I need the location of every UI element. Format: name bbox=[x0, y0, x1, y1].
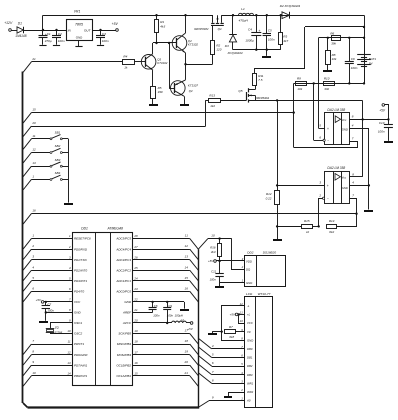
svg-text:10: 10 bbox=[67, 329, 71, 333]
svg-text:OUT: OUT bbox=[84, 28, 92, 32]
wire op2 pin8 supply bbox=[350, 172, 363, 176]
svg-text:A0: A0 bbox=[246, 399, 251, 403]
svg-text:WR1: WR1 bbox=[247, 381, 254, 385]
svg-text:ADC5/PC5: ADC5/PC5 bbox=[115, 237, 131, 241]
svg-text:10: 10 bbox=[240, 319, 244, 323]
resistor R14 6k2 bbox=[327, 219, 337, 234]
resistor R3 4k7 bbox=[279, 15, 289, 50]
ground at LCD contrast bbox=[208, 332, 222, 336]
wire battery top feed bbox=[255, 27, 364, 69]
svg-text:+5V: +5V bbox=[379, 109, 386, 113]
svg-text:PD6/AIN0: PD6/AIN0 bbox=[74, 353, 88, 357]
transistor Q4 KT3107 bbox=[169, 43, 198, 104]
svg-text:C8: C8 bbox=[154, 304, 158, 308]
svg-text:100µH: 100µH bbox=[175, 313, 184, 317]
wire net 15 row bbox=[23, 108, 294, 124]
svg-text:100n: 100n bbox=[210, 278, 217, 282]
wire net20 riser to R13 bbox=[205, 100, 207, 126]
svg-text:28: 28 bbox=[133, 234, 138, 238]
svg-text:WT10-77: WT10-77 bbox=[258, 292, 271, 296]
svg-text:R13: R13 bbox=[209, 93, 215, 97]
MCU left net stubs bbox=[23, 234, 72, 387]
wire op1 pin5 input bbox=[319, 38, 325, 129]
ground below R5 bbox=[149, 104, 158, 106]
svg-text:DA2 LM 358: DA2 LM 358 bbox=[327, 166, 345, 170]
svg-text:4k7: 4k7 bbox=[283, 39, 288, 43]
wire VR1 out to +5V bbox=[92, 29, 116, 31]
resistor R6 39k bbox=[330, 31, 340, 45]
ground below VR1 bbox=[75, 40, 82, 47]
svg-text:32768: 32768 bbox=[54, 331, 62, 335]
svg-text:V0: V0 bbox=[247, 330, 251, 334]
svg-text:12: 12 bbox=[67, 350, 71, 354]
svg-text:18: 18 bbox=[134, 340, 138, 344]
svg-text:Q1: Q1 bbox=[218, 27, 222, 31]
ground below C1 bbox=[39, 38, 46, 46]
svg-text:KT3102: KT3102 bbox=[188, 43, 199, 47]
svg-text:ADC2/PC2: ADC2/PC2 bbox=[115, 268, 131, 272]
wire op1 pin8 V+ row bbox=[349, 115, 389, 121]
svg-text:+: + bbox=[258, 29, 260, 33]
svg-text:SB1: SB1 bbox=[55, 130, 61, 134]
svg-text:6k8: 6k8 bbox=[229, 335, 234, 339]
node +5V output terminal bbox=[112, 22, 119, 31]
svg-text:R12: R12 bbox=[266, 192, 272, 196]
bus left vertical bbox=[23, 72, 28, 408]
svg-text:C6: C6 bbox=[351, 57, 355, 61]
wire net 8 row to LCD WR1 bbox=[198, 373, 244, 384]
wire net 4 row to LCD DB0 bbox=[198, 338, 244, 349]
node +5V LCD terminal bbox=[230, 313, 245, 324]
capacitor C11 100n bbox=[210, 261, 224, 286]
svg-text:4k3: 4k3 bbox=[160, 25, 165, 29]
resistor R1 4k3 bbox=[155, 15, 166, 43]
svg-text:OSC1: OSC1 bbox=[74, 321, 83, 325]
ground below R12 bbox=[273, 239, 282, 241]
wire op1 pin4 to ground bbox=[349, 124, 370, 210]
svg-text:25: 25 bbox=[133, 266, 138, 270]
svg-text:DB0: DB0 bbox=[247, 347, 253, 351]
resistor R10 39k bbox=[324, 77, 335, 91]
svg-text:OC1A/PB1: OC1A/PB1 bbox=[116, 374, 131, 378]
svg-text:ADC1/PC1: ADC1/PC1 bbox=[115, 279, 131, 283]
wire DS18B20 GND row bbox=[220, 282, 245, 284]
svg-text:PD5/T1: PD5/T1 bbox=[74, 342, 85, 346]
svg-text:IRF9530N: IRF9530N bbox=[194, 27, 209, 31]
resistor R15 1k bbox=[277, 219, 320, 234]
svg-text:DB3: DB3 bbox=[247, 373, 253, 377]
svg-text:100n: 100n bbox=[58, 39, 65, 43]
resistor R11 7.5 bbox=[253, 68, 264, 86]
svg-text:2: 2 bbox=[31, 244, 34, 248]
svg-text:C5: C5 bbox=[268, 29, 272, 33]
svg-text:PD2/INT0: PD2/INT0 bbox=[74, 268, 88, 272]
svg-text:R14: R14 bbox=[329, 219, 335, 223]
svg-text:R16: R16 bbox=[210, 246, 216, 250]
svg-text:KT3107: KT3107 bbox=[188, 84, 199, 88]
svg-text:2: 2 bbox=[240, 388, 243, 392]
ground below switches bbox=[64, 203, 73, 205]
svg-text:MOSI/PB3: MOSI/PB3 bbox=[117, 353, 132, 357]
svg-text:100n: 100n bbox=[153, 313, 160, 317]
svg-text:DA2 LM 358: DA2 LM 358 bbox=[327, 108, 345, 112]
resistor R16 4k3 bbox=[210, 239, 221, 261]
ground below C5 row bbox=[262, 50, 271, 58]
svg-text:ADC0/PC0: ADC0/PC0 bbox=[115, 289, 131, 293]
svg-text:+L: +L bbox=[247, 313, 251, 317]
svg-text:13: 13 bbox=[32, 161, 36, 165]
svg-text:VCC: VCC bbox=[247, 321, 254, 325]
resistor R4 1k bbox=[123, 55, 135, 70]
svg-text:LCD: LCD bbox=[246, 292, 253, 296]
ground below C10 bbox=[384, 141, 393, 143]
svg-text:13: 13 bbox=[67, 361, 71, 365]
svg-text:VDD: VDD bbox=[246, 259, 252, 263]
svg-text:R9: R9 bbox=[297, 77, 301, 81]
svg-text:10k: 10k bbox=[332, 57, 337, 61]
svg-text:ADC4/PC4: ADC4/PC4 bbox=[115, 247, 131, 251]
ground below C2 bbox=[53, 38, 60, 46]
svg-text:D2 FCQ30A04: D2 FCQ30A04 bbox=[280, 4, 301, 8]
switch SB1 bbox=[23, 130, 68, 149]
svg-text:C3: C3 bbox=[102, 32, 106, 36]
resistor R12 0.22 shunt bbox=[266, 100, 280, 239]
svg-text:DD1: DD1 bbox=[81, 227, 88, 231]
svg-text:FCQ30A04: FCQ30A04 bbox=[228, 51, 243, 55]
wire op-amp V+ vertical bbox=[362, 119, 364, 176]
svg-text:SB4: SB4 bbox=[55, 171, 61, 175]
svg-text:16: 16 bbox=[134, 361, 138, 365]
svg-text:BAT1: BAT1 bbox=[369, 57, 377, 61]
svg-text:15: 15 bbox=[185, 276, 189, 280]
svg-text:16: 16 bbox=[185, 286, 189, 290]
svg-text:+: + bbox=[327, 127, 329, 131]
wire op2 pin4 ground row bbox=[350, 181, 369, 186]
svg-text:330: 330 bbox=[158, 90, 163, 94]
transistor Q2 KT3102 bbox=[172, 15, 198, 64]
svg-text:R4: R4 bbox=[123, 55, 127, 59]
svg-text:21: 21 bbox=[31, 57, 36, 61]
svg-text:100n: 100n bbox=[268, 38, 275, 42]
svg-text:10: 10 bbox=[211, 234, 215, 238]
svg-text:PD0/RXD: PD0/RXD bbox=[74, 247, 88, 251]
svg-text:470µ: 470µ bbox=[45, 39, 52, 43]
svg-text:D3: D3 bbox=[225, 44, 229, 48]
svg-text:100n: 100n bbox=[167, 313, 174, 317]
MCU pin names and numbers bbox=[67, 234, 138, 378]
svg-text:21: 21 bbox=[133, 308, 138, 312]
svg-text:Vcc: Vcc bbox=[342, 118, 347, 122]
wire net 21 row to R4 bbox=[23, 57, 123, 73]
svg-text:ADC3/PC3: ADC3/PC3 bbox=[115, 258, 131, 262]
svg-text:+12V: +12V bbox=[4, 21, 13, 25]
capacitor C6 100n bbox=[345, 38, 358, 84]
wire op2 pin2 input bbox=[318, 193, 324, 226]
svg-text:12: 12 bbox=[32, 148, 36, 152]
svg-text:14: 14 bbox=[185, 265, 189, 269]
svg-text:C4: C4 bbox=[248, 27, 252, 31]
svg-text:12: 12 bbox=[185, 244, 189, 248]
wire net 9 row to LCD A0 bbox=[198, 396, 244, 408]
wire driver base row bbox=[153, 42, 177, 44]
svg-text:2: 2 bbox=[318, 193, 321, 197]
svg-text:R1: R1 bbox=[160, 20, 164, 24]
wire AREF row bbox=[133, 312, 153, 314]
svg-text:RESET/PC6: RESET/PC6 bbox=[74, 237, 91, 241]
svg-text:DD2: DD2 bbox=[247, 251, 253, 255]
svg-text:0.22: 0.22 bbox=[266, 197, 272, 201]
svg-text:Q4: Q4 bbox=[189, 89, 193, 93]
svg-text:120: 120 bbox=[216, 47, 221, 51]
wire op1 pin7 output loop bbox=[294, 137, 358, 148]
wire op2 pin7 output loop bbox=[337, 193, 358, 226]
svg-text:27: 27 bbox=[133, 245, 138, 249]
svg-text:PD7/AIN1: PD7/AIN1 bbox=[74, 363, 88, 367]
svg-text:2: 2 bbox=[241, 265, 244, 269]
svg-text:39k: 39k bbox=[331, 42, 336, 46]
op-amp DA2 LM358 first half bbox=[325, 108, 350, 144]
svg-text:GND: GND bbox=[124, 300, 132, 304]
ground below R8 bbox=[323, 70, 332, 72]
svg-text:100n: 100n bbox=[351, 66, 358, 70]
svg-text:C2: C2 bbox=[58, 32, 62, 36]
svg-text:1000µ: 1000µ bbox=[245, 39, 254, 43]
ground below Q4 bbox=[180, 104, 189, 106]
wire LCD backlight to GND pin bbox=[221, 306, 245, 341]
svg-text:DB2: DB2 bbox=[247, 364, 253, 368]
resistor R8 10k bbox=[326, 38, 337, 70]
svg-text:GND: GND bbox=[246, 281, 252, 285]
svg-text:14: 14 bbox=[67, 371, 71, 375]
svg-text:DB1: DB1 bbox=[247, 356, 253, 360]
svg-text:11: 11 bbox=[68, 340, 71, 344]
svg-text:11: 11 bbox=[240, 311, 243, 315]
svg-text:OC1B/PB2: OC1B/PB2 bbox=[116, 363, 131, 367]
svg-text:D1: D1 bbox=[18, 22, 22, 26]
wire Q5 source line to op-amp supply corner bbox=[248, 99, 362, 119]
svg-text:−: − bbox=[327, 197, 329, 201]
wire net 10 row to DQ bbox=[198, 234, 244, 270]
svg-text:Vcc: Vcc bbox=[342, 176, 347, 180]
svg-text:1N4148: 1N4148 bbox=[15, 34, 26, 38]
svg-text:DS18B20: DS18B20 bbox=[263, 251, 277, 255]
svg-text:15: 15 bbox=[32, 108, 36, 112]
svg-text:VCC: VCC bbox=[74, 300, 81, 304]
svg-text:20: 20 bbox=[184, 360, 189, 364]
svg-text:21: 21 bbox=[184, 371, 189, 375]
resistor R13 1k2 bbox=[206, 93, 221, 108]
capacitor C3 100n bbox=[96, 30, 109, 43]
svg-text:6k2: 6k2 bbox=[329, 230, 334, 234]
svg-text:SCK/PB5: SCK/PB5 bbox=[118, 332, 131, 336]
resistor R5 330 bbox=[151, 86, 163, 104]
regulator VR1 7805 bbox=[67, 10, 93, 41]
svg-text:R15: R15 bbox=[304, 219, 310, 223]
diode D1 1N4148 bbox=[15, 22, 26, 38]
capacitor C5 100n bbox=[263, 15, 275, 50]
capacitor C7 100n bbox=[42, 302, 55, 313]
bus right vertical bbox=[198, 249, 200, 407]
svg-text:1k: 1k bbox=[124, 65, 128, 69]
svg-text:17: 17 bbox=[134, 350, 138, 354]
svg-text:11: 11 bbox=[32, 134, 35, 138]
battery BAT1 9V bbox=[357, 38, 376, 84]
svg-text:C11: C11 bbox=[211, 269, 216, 273]
svg-text:AREF: AREF bbox=[122, 311, 131, 315]
svg-text:100n: 100n bbox=[378, 129, 385, 133]
svg-text:PD1/TXD: PD1/TXD bbox=[74, 258, 88, 262]
svg-text:+5V: +5V bbox=[112, 22, 119, 26]
wire MCU GND row bbox=[45, 311, 73, 321]
svg-text:C9: C9 bbox=[168, 304, 172, 308]
svg-text:IRF9540A: IRF9540A bbox=[256, 96, 269, 100]
wire top-right corner down bbox=[363, 15, 365, 84]
wire +12V riser to top rail bbox=[42, 15, 44, 30]
wire net 7 row to LCD DB3 bbox=[198, 364, 244, 375]
wire buck output bottom row bbox=[233, 49, 281, 51]
capacitor C1 470u bbox=[39, 30, 52, 43]
transistor Q3 KT3102 bbox=[141, 43, 167, 86]
wire op1 output feedback riser bbox=[293, 83, 295, 147]
svg-text:10k: 10k bbox=[297, 87, 302, 91]
svg-text:7.5: 7.5 bbox=[258, 78, 263, 82]
svg-text:PD3/INT1: PD3/INT1 bbox=[74, 279, 88, 283]
svg-text:ZQ: ZQ bbox=[54, 326, 60, 330]
svg-text:11: 11 bbox=[185, 234, 188, 238]
diode D3 FCQ30A04 bbox=[225, 15, 243, 55]
capacitor C4 1000u bbox=[245, 15, 261, 50]
node +5V op-amp supply terminal bbox=[379, 104, 388, 120]
svg-text:23: 23 bbox=[133, 287, 138, 291]
ground below C11 bbox=[215, 286, 224, 288]
svg-text:20: 20 bbox=[31, 121, 36, 125]
svg-text:SB2: SB2 bbox=[55, 144, 61, 148]
bus bottom horizontal bbox=[28, 406, 200, 408]
resistor R9 10k bbox=[296, 77, 307, 91]
svg-text:470µH: 470µH bbox=[239, 19, 249, 23]
capacitor C9 100n bbox=[163, 302, 173, 324]
wire D1 to VR1 input bbox=[24, 29, 66, 31]
svg-text:R7: R7 bbox=[229, 325, 233, 329]
switch SB4 bbox=[23, 171, 68, 190]
wire switch common bbox=[68, 139, 70, 203]
svg-text:GND: GND bbox=[74, 311, 82, 315]
svg-text:26: 26 bbox=[133, 255, 138, 259]
svg-text:2: 2 bbox=[68, 245, 71, 249]
wire battery bottom row bbox=[294, 82, 364, 84]
svg-text:39k: 39k bbox=[324, 87, 329, 91]
svg-text:GND: GND bbox=[342, 186, 348, 190]
wire driver output node bbox=[184, 63, 212, 65]
svg-text:OSC2: OSC2 bbox=[74, 332, 83, 336]
svg-text:19: 19 bbox=[134, 329, 138, 333]
ground below op amp pin4 line bbox=[364, 210, 373, 212]
diode D2 FCQ30A04 bbox=[280, 4, 301, 19]
resistor R7 6k8 bbox=[225, 325, 245, 339]
wire op2 pin3 input bbox=[277, 181, 324, 186]
transistor Q5 IRF9540A bbox=[220, 86, 269, 103]
svg-text:100n: 100n bbox=[47, 308, 54, 312]
switch SB3 bbox=[23, 158, 68, 177]
svg-text:SB3: SB3 bbox=[55, 158, 61, 162]
wire net 5 row to LCD DB1 bbox=[198, 347, 244, 358]
svg-text:ATMEGA8: ATMEGA8 bbox=[107, 227, 124, 231]
svg-text:4k3: 4k3 bbox=[211, 250, 216, 254]
svg-text:PB0/ICP1: PB0/ICP1 bbox=[74, 374, 88, 378]
svg-text:Q5: Q5 bbox=[238, 89, 242, 93]
svg-text:VR1: VR1 bbox=[74, 10, 81, 14]
svg-text:R6: R6 bbox=[330, 31, 334, 35]
svg-text:C7: C7 bbox=[47, 302, 51, 306]
svg-text:AVCC: AVCC bbox=[122, 321, 132, 325]
wire op1 pin6 input bbox=[314, 83, 326, 141]
wire net 20 row bbox=[23, 121, 206, 137]
svg-text:L1: L1 bbox=[241, 7, 245, 11]
wire net 6 row to LCD DB2 bbox=[198, 356, 244, 367]
wire LCD WR2 to ground bbox=[228, 392, 244, 396]
capacitor C8 100n bbox=[149, 302, 160, 318]
svg-text:GND: GND bbox=[342, 127, 348, 131]
svg-text:-L: -L bbox=[247, 304, 250, 308]
op-amp DA2 LM358 second half bbox=[325, 166, 350, 204]
svg-text:15: 15 bbox=[134, 371, 138, 375]
svg-text:10: 10 bbox=[32, 371, 36, 375]
svg-text:PD4/T0: PD4/T0 bbox=[74, 289, 85, 293]
node +5V AVCC terminal bbox=[187, 322, 193, 331]
node +12V input terminal bbox=[4, 21, 17, 31]
svg-text:100n: 100n bbox=[102, 39, 109, 43]
inductor L1 470uH bbox=[239, 7, 254, 23]
LCD WT10-77 module bbox=[240, 292, 273, 407]
svg-text:22: 22 bbox=[133, 298, 138, 302]
crystal ZQ1 32768 bbox=[46, 323, 72, 335]
wire +12V top rail left bbox=[43, 14, 213, 16]
wire MCU GND right row bbox=[133, 301, 185, 309]
node +5V MCU VCC terminal bbox=[36, 298, 73, 303]
svg-text:19: 19 bbox=[185, 350, 189, 354]
svg-text:1k2: 1k2 bbox=[210, 104, 215, 108]
svg-text:20: 20 bbox=[133, 319, 138, 323]
capacitor C10 100n bbox=[378, 119, 393, 140]
capacitor C2 100n bbox=[52, 30, 65, 43]
switch SB2 bbox=[23, 144, 68, 163]
wire R4 to Q3 base bbox=[134, 61, 145, 63]
wire net 16 row bbox=[23, 209, 357, 225]
transistor Q1 IRF9530N bbox=[194, 15, 224, 40]
svg-text:C10: C10 bbox=[379, 121, 385, 125]
svg-text:KT3102: KT3102 bbox=[157, 61, 168, 65]
svg-text:GND: GND bbox=[247, 338, 253, 342]
inductor L2 100uH bbox=[133, 313, 190, 323]
ground at LCD WR2 bbox=[224, 396, 232, 398]
resistor R2 120 bbox=[211, 41, 222, 65]
ground below MCU GND bbox=[39, 321, 48, 323]
svg-text:18: 18 bbox=[185, 339, 189, 343]
IC DD2 DS18B20 bbox=[241, 251, 286, 287]
MCU right net stubs bbox=[133, 234, 198, 387]
svg-text:L2: L2 bbox=[181, 318, 185, 322]
svg-text:7805: 7805 bbox=[75, 22, 83, 26]
svg-text:MISO/PB4: MISO/PB4 bbox=[117, 342, 132, 346]
wire top rail right of Q1 bbox=[222, 14, 365, 16]
MCU DD1 ATMEGA8 body bbox=[73, 227, 133, 386]
svg-text:+C1: +C1 bbox=[45, 32, 51, 36]
wire R6 row bbox=[319, 37, 365, 39]
svg-text:WR2: WR2 bbox=[247, 390, 254, 394]
svg-text:1k: 1k bbox=[306, 230, 310, 234]
svg-text:24: 24 bbox=[133, 276, 138, 280]
svg-text:13: 13 bbox=[185, 255, 189, 259]
